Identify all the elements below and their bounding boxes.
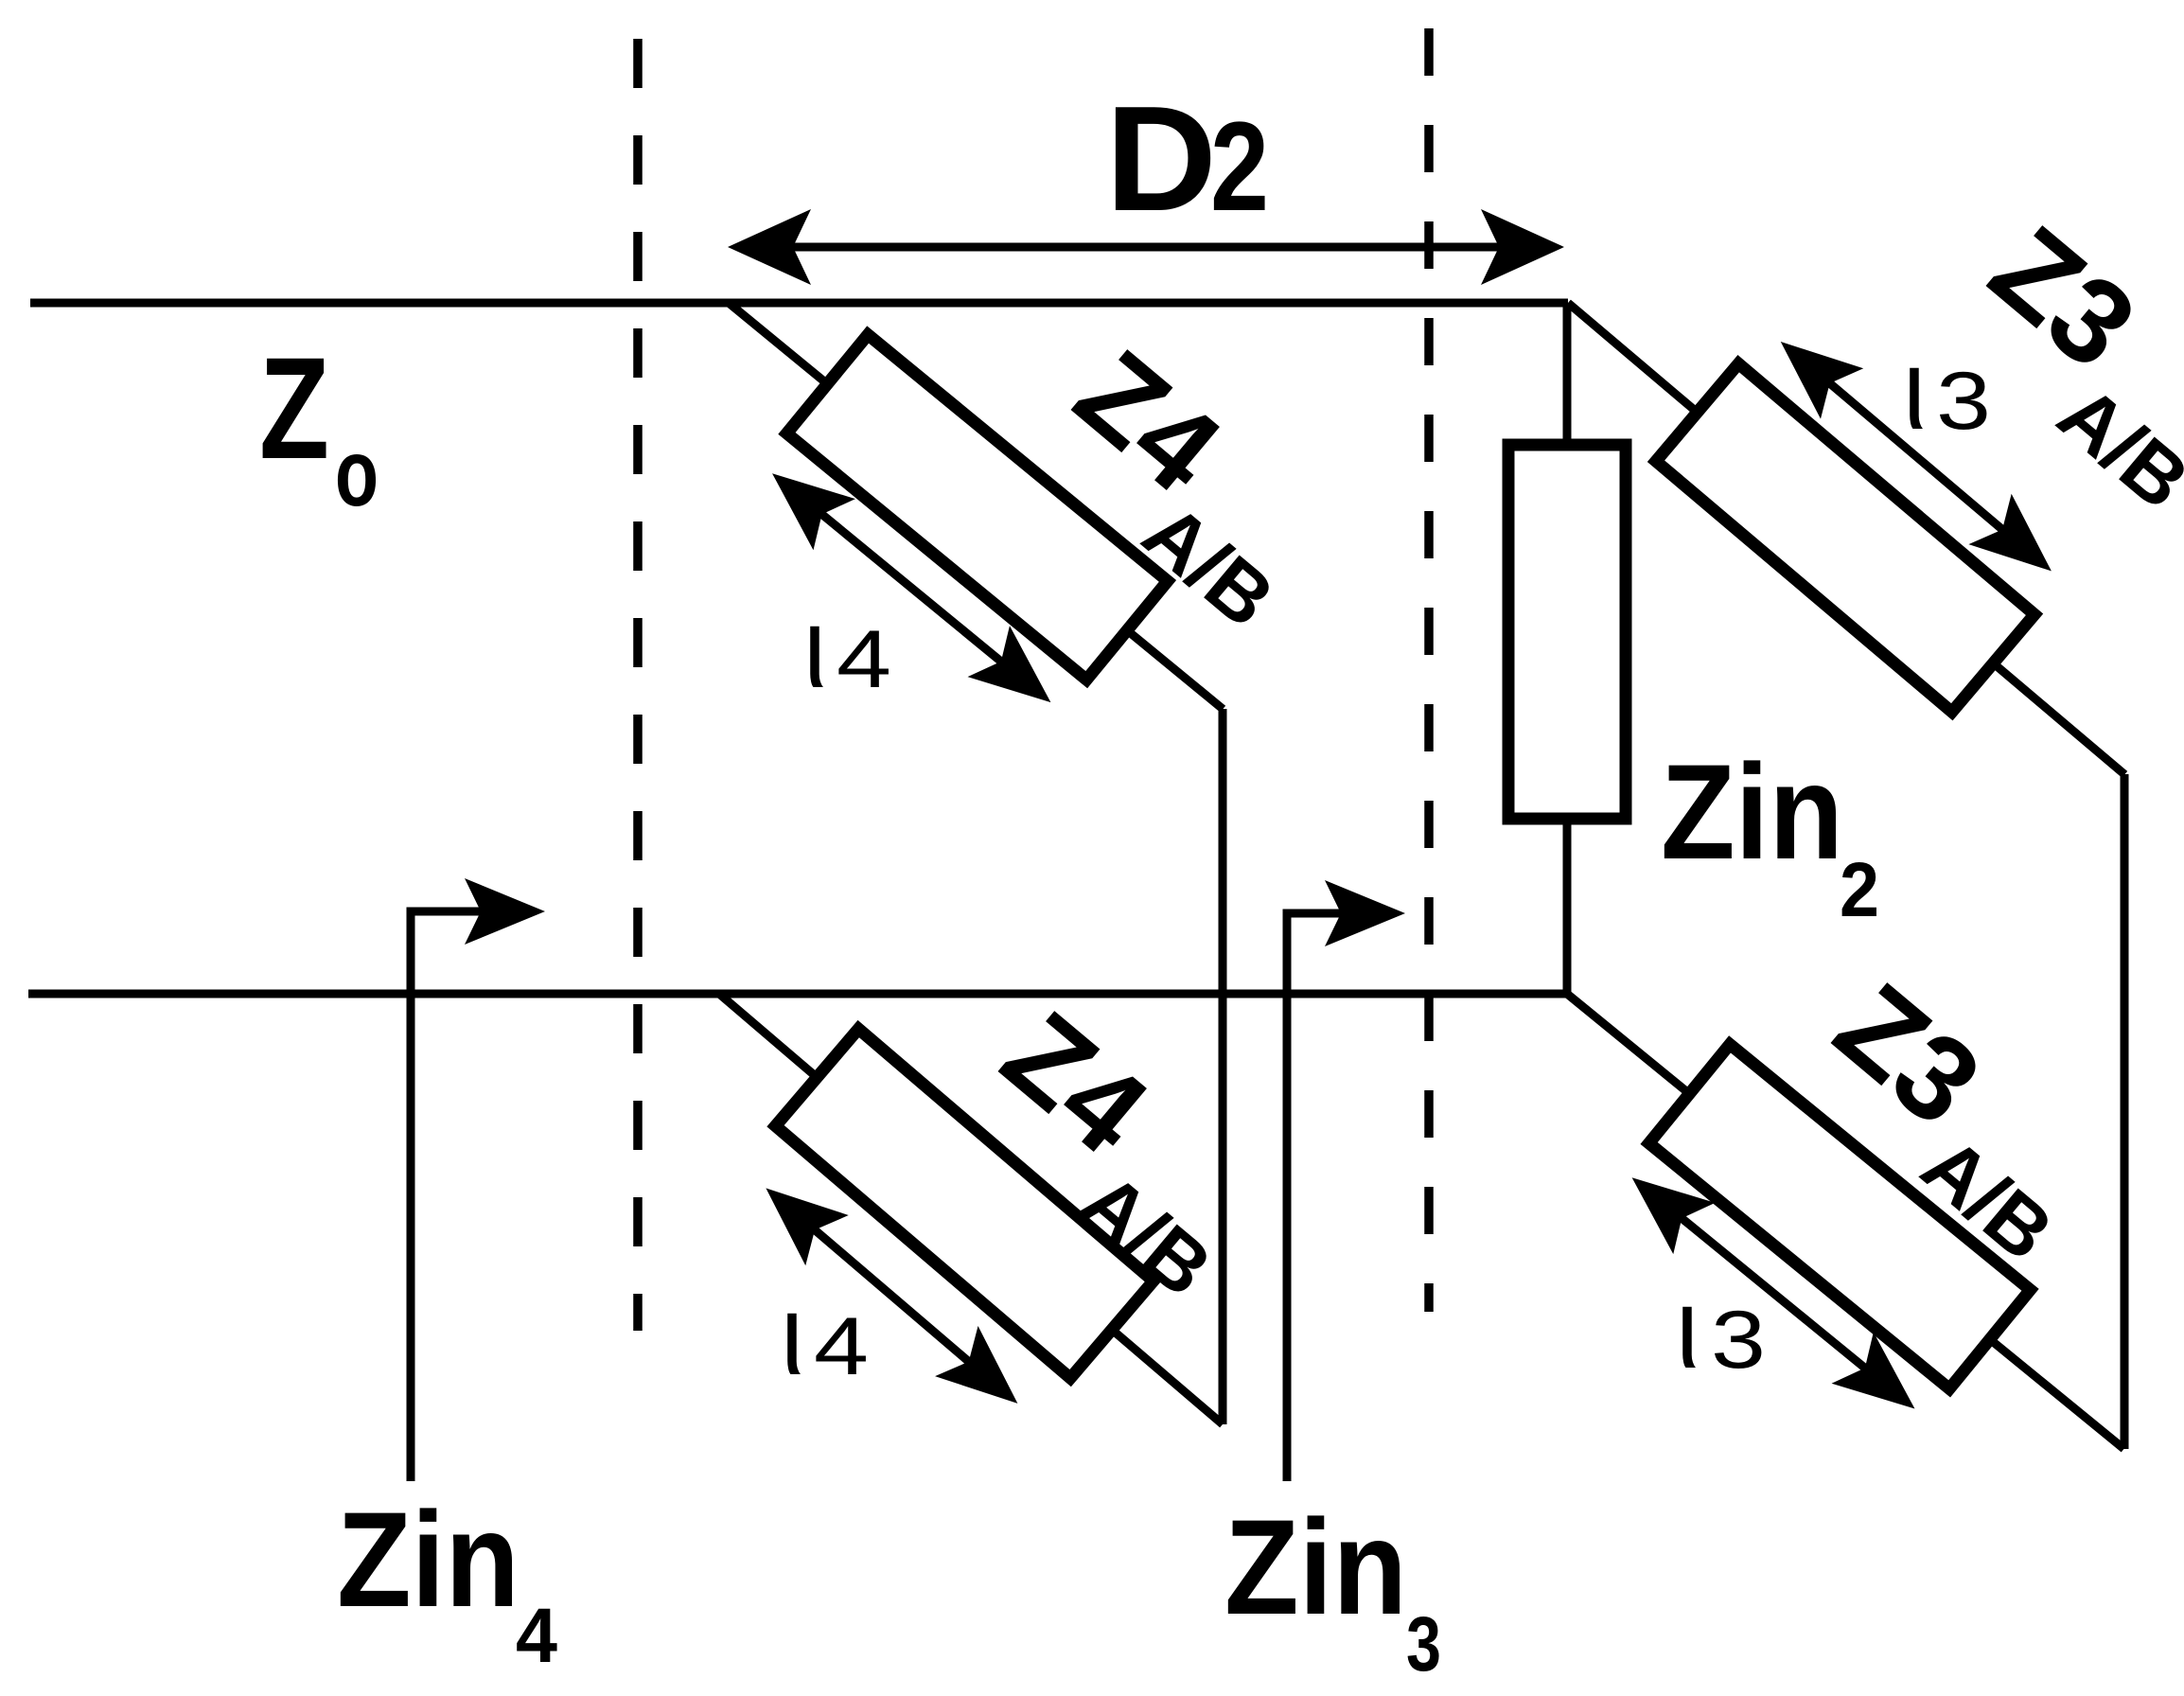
arrow l3 (lower) [1646, 1189, 1902, 1398]
label Z4 A/B (upper) [1051, 325, 1290, 645]
wire: vertical riser from shunt element to bottom wire [1563, 819, 1572, 994]
dashed reference plane line (right) [1424, 28, 1434, 1312]
arrow l4 (upper) [787, 486, 1040, 693]
stub Z4 upper branch [642, 254, 1263, 815]
label Z0 [259, 327, 379, 526]
svg-text:o: o [335, 420, 379, 526]
label D2 [1105, 76, 1269, 242]
arrow marker Zin3 (reference into node) [1287, 880, 1405, 1481]
arrow l4 (lower) [780, 1200, 1006, 1394]
svg-text:3: 3 [1406, 1601, 1441, 1687]
svg-text:Zin: Zin [337, 1485, 520, 1635]
label Z3 A/B (upper) [1966, 201, 2184, 527]
stub Z4 lower branch [622, 945, 1264, 1539]
svg-text:Zin: Zin [1661, 737, 1843, 888]
arrow marker Zin4 (reference into node) [411, 878, 545, 1481]
svg-text:2: 2 [1210, 97, 1269, 238]
svg-text:2: 2 [1840, 847, 1879, 933]
svg-text:4: 4 [516, 1593, 557, 1679]
wire: top conductor (Z0 line) [30, 299, 1568, 308]
svg-text:4: 4 [837, 614, 891, 705]
svg-text:4: 4 [814, 1301, 869, 1392]
svg-text:ι: ι [803, 583, 826, 712]
label l3 (upper) [1903, 325, 1991, 453]
wire: vertical riser from top wire to shunt element Zin2 [1563, 303, 1572, 445]
shunt element rectangle (Zin2 branch) [1508, 445, 1626, 819]
svg-text:Z: Z [259, 327, 329, 489]
stub Z3 lower branch [1482, 945, 2164, 1553]
arrow l3 (upper) [1793, 352, 2040, 561]
wire: bottom conductor (Z0 line) [28, 990, 1567, 998]
wire: vertical link of upper Z3 branch down to lower Z3 branch (right side) [2121, 774, 2129, 1449]
label Z4 A/B (lower) [978, 986, 1227, 1315]
svg-text:ι: ι [1903, 325, 1926, 453]
label Zin4 [337, 1485, 557, 1679]
svg-text:3: 3 [1936, 356, 1991, 447]
svg-text:ι: ι [781, 1270, 803, 1399]
label l3 (lower) [1676, 1263, 1766, 1392]
svg-text:ι: ι [1676, 1263, 1699, 1392]
label l4 (lower) [781, 1270, 869, 1399]
svg-text:Zin: Zin [1224, 1493, 1407, 1643]
label Zin2 [1661, 737, 1879, 933]
dimension arrow D2 [728, 209, 1564, 285]
label Zin3 [1224, 1493, 1441, 1687]
svg-text:3: 3 [1711, 1295, 1766, 1386]
dashed reference plane line (left) [633, 39, 643, 1331]
wire: vertical link of upper Z4 branch down to lower Z4 branch [1219, 709, 1227, 1424]
label l4 (upper) [803, 583, 891, 712]
label Z3 A/B (lower) [1811, 958, 2069, 1279]
svg-text:D: D [1105, 76, 1217, 242]
stub Z3 upper branch [1526, 195, 2184, 823]
